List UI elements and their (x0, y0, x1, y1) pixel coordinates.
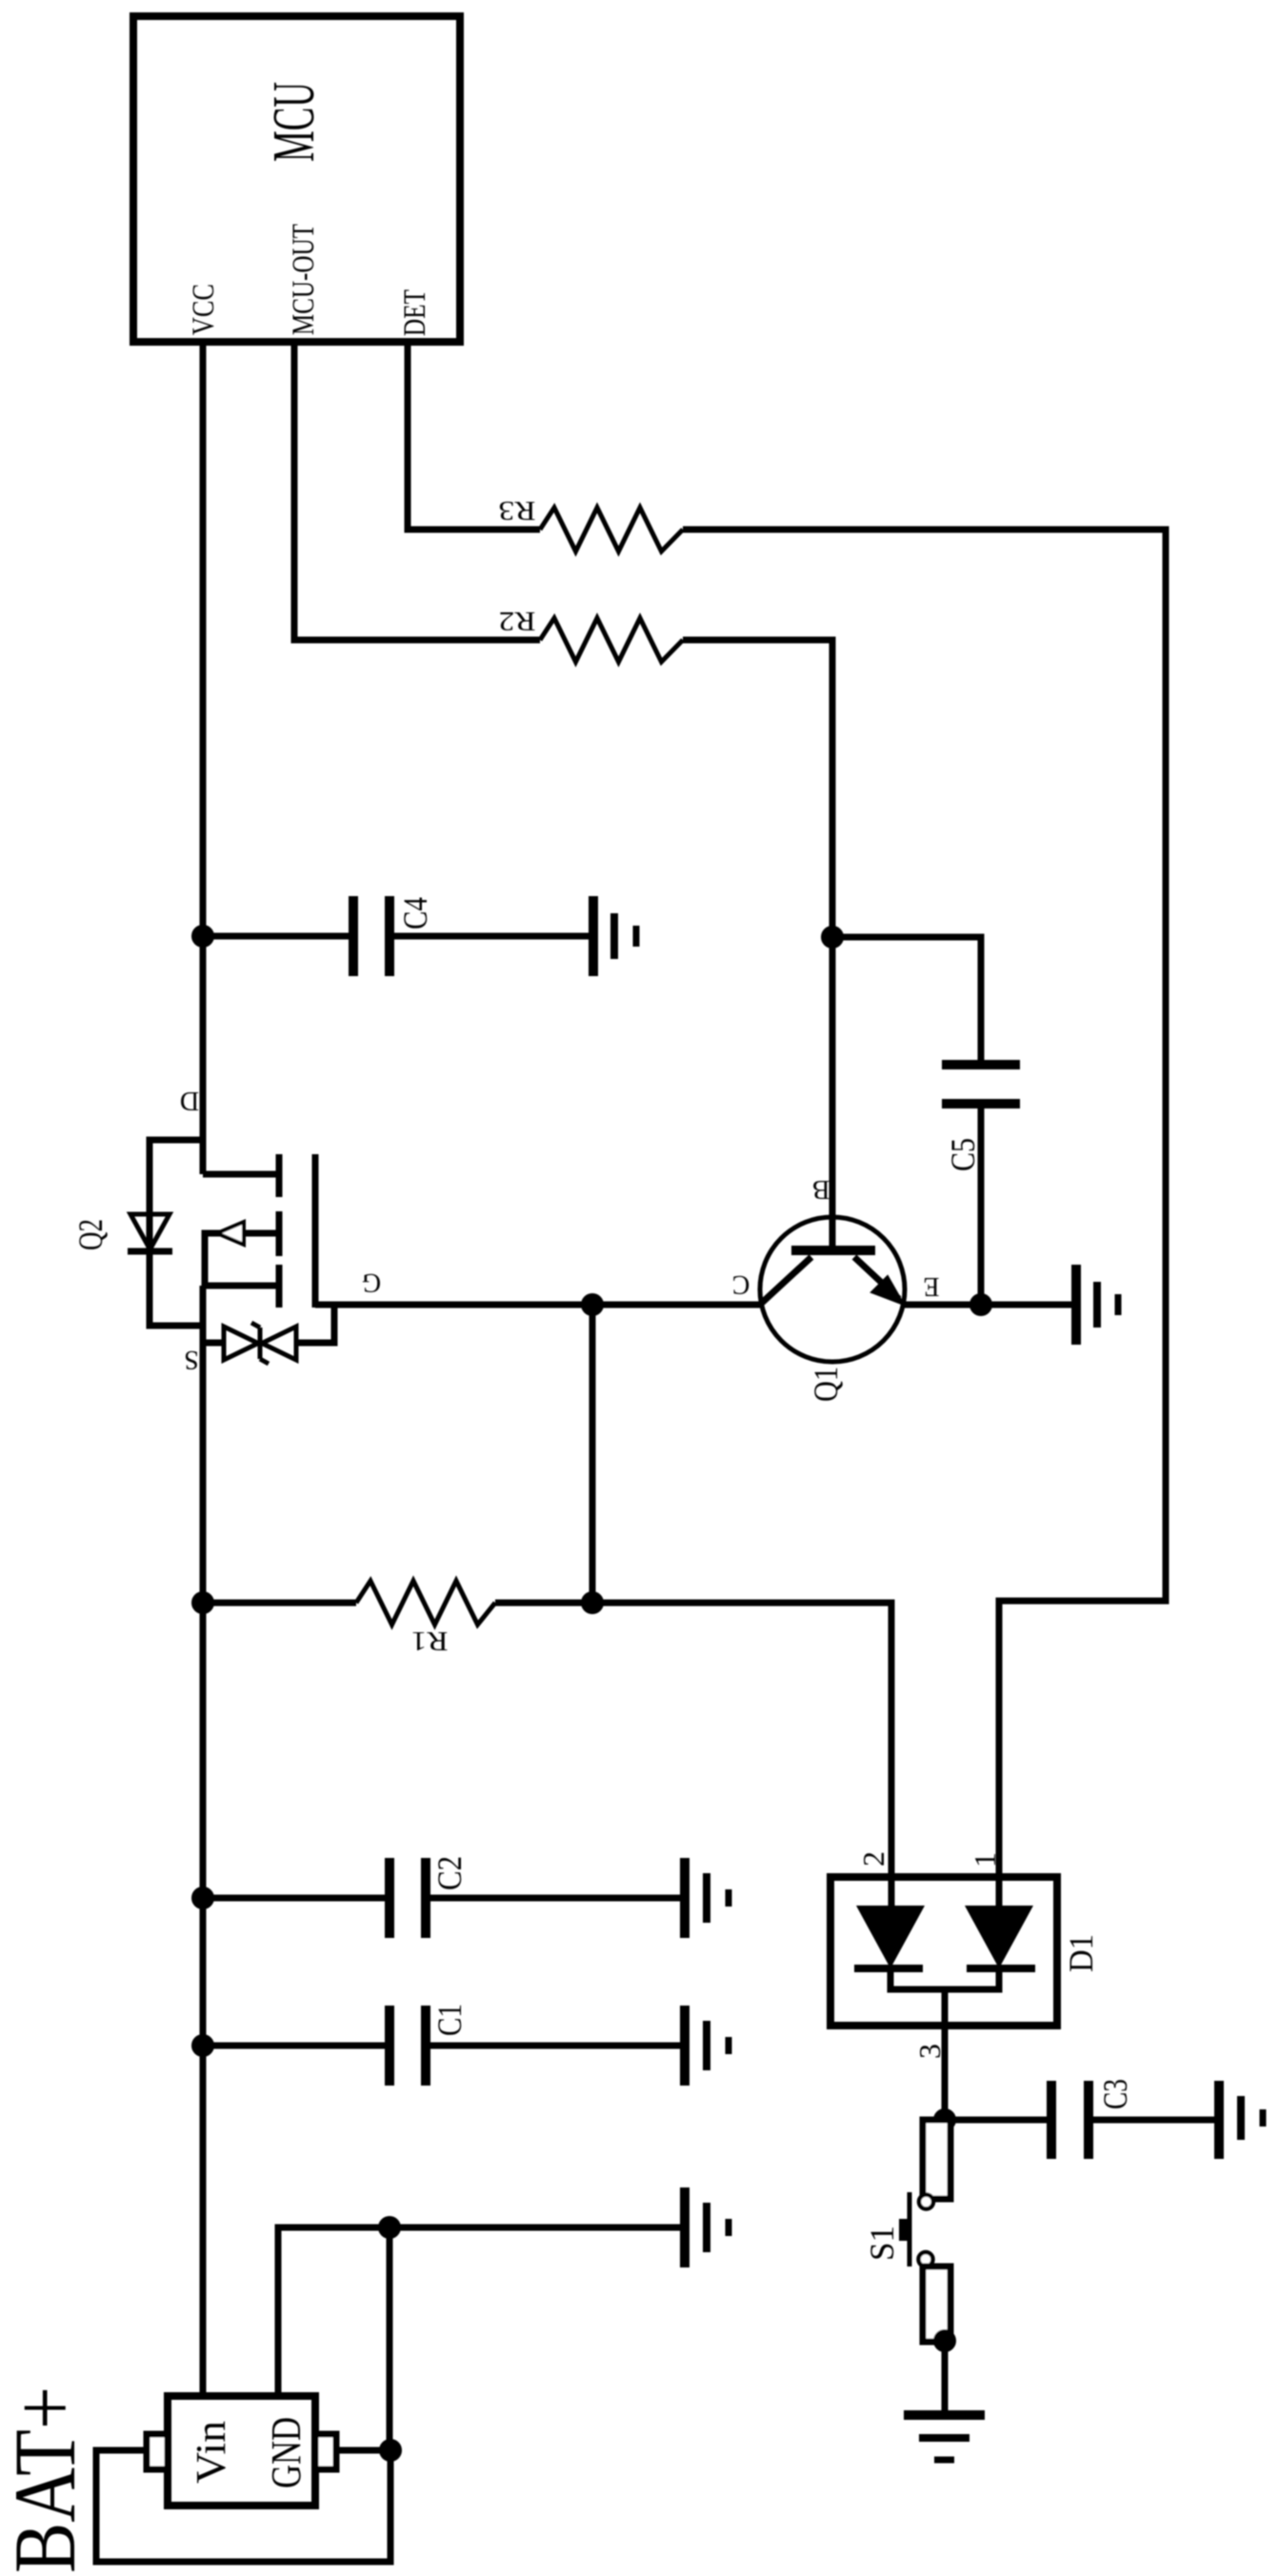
wire G net horizontal (315, 1302, 760, 1308)
node junction battery/GND (379, 2439, 402, 2462)
wire D1 cathodes join (890, 1968, 999, 1989)
wire right tab to node (336, 2447, 390, 2454)
svg-text:Q1: Q1 (807, 1367, 845, 1402)
svg-text:C5: C5 (944, 1138, 982, 1171)
wire R1 to D1 pin2 (495, 1603, 891, 1906)
ground (C2, sideways) (685, 1858, 729, 1938)
svg-text:B: B (812, 1174, 830, 1204)
wire C4 to ground (390, 933, 593, 940)
resistor R3 (540, 508, 683, 551)
svg-text:G: G (362, 1268, 381, 1297)
svg-text:C2: C2 (430, 1856, 469, 1890)
svg-text:GND: GND (263, 2417, 310, 2488)
ground (S1, upright) (904, 2415, 985, 2460)
diode D1 right element (965, 1906, 1035, 1968)
resistor R1 (356, 1581, 495, 1625)
wire Q1 emitter to ground (905, 1302, 1072, 1308)
wire R2 to node B (683, 640, 832, 937)
node junction VCC/R1 (191, 1591, 214, 1614)
wire VCC to C1 (203, 2043, 390, 2049)
svg-text:S: S (184, 1345, 199, 1374)
capacitor C4 (353, 896, 390, 976)
wire node to C5 (832, 937, 981, 1065)
svg-text:Vin: Vin (188, 2421, 234, 2484)
node junction VCC/C1 (191, 2034, 214, 2057)
capacitor C2 (390, 1858, 426, 1938)
wire C5 to node E (978, 1104, 985, 1305)
wire battery loop (96, 2450, 390, 2562)
wire GND net (278, 2227, 685, 2396)
wire DET to R3 (408, 345, 540, 529)
wire GND node down (387, 2227, 393, 2450)
wire D1 pin3 (942, 1989, 949, 2120)
wire C2 to ground (426, 1895, 685, 1902)
capacitor C5 (942, 1065, 1020, 1104)
wire VCC to C4 (203, 933, 353, 940)
wire Q2 body branch (150, 1140, 203, 1326)
ground (C4, sideways) (593, 896, 636, 976)
svg-text:Q2: Q2 (71, 1219, 110, 1250)
ground (C1, sideways) (685, 2006, 729, 2086)
svg-text:DET: DET (398, 290, 432, 336)
wire VCC to R1 (203, 1600, 356, 1607)
diode zener S-G (203, 1305, 334, 1364)
wire C1 to ground (426, 2043, 685, 2049)
svg-text:C: C (732, 1269, 750, 1299)
svg-text:C1: C1 (430, 2004, 469, 2036)
node junction R1/G (581, 1591, 604, 1614)
wire node to Q1 base (829, 937, 836, 1246)
capacitor C3 (1051, 2081, 1089, 2159)
ground (C3, sideways) (1219, 2081, 1263, 2159)
svg-text:2: 2 (856, 1851, 890, 1867)
diode Q2 body diode (128, 1214, 172, 1251)
node junction GND net (378, 2216, 401, 2239)
node junction R2/C5/B (821, 926, 844, 949)
wire VCC net vertical (200, 345, 207, 1174)
transistor Q2 (MOSFET) (203, 1154, 315, 1308)
wire G net to R1 node (590, 1305, 596, 1603)
MCU U1 block (133, 16, 460, 342)
pin tab left (147, 2434, 168, 2469)
svg-text:3: 3 (912, 2044, 947, 2059)
wire R3 to right side (683, 529, 1166, 1906)
svg-text:E: E (923, 1271, 939, 1301)
svg-text:MCU-OUT: MCU-OUT (287, 224, 321, 335)
diode D1 left element (854, 1906, 925, 1968)
svg-text:MCU: MCU (262, 82, 327, 162)
svg-text:BAT+: BAT+ (0, 2386, 93, 2573)
ground (Q1 emitter, sideways) (1076, 1265, 1118, 1345)
svg-text:1: 1 (968, 1852, 1002, 1867)
svg-text:R3: R3 (499, 495, 536, 525)
svg-text:S1: S1 (863, 2226, 901, 2261)
node junction VCC/C4 (191, 925, 214, 948)
pin tab right (315, 2434, 336, 2469)
svg-text:VCC: VCC (187, 284, 221, 335)
svg-text:C4: C4 (396, 897, 434, 929)
ground (GND net, sideways) (685, 2187, 729, 2267)
wire node to C3 (945, 2117, 1051, 2124)
wire MCU-OUT to R2 (294, 345, 540, 640)
node junction pin3/C3/S1 (933, 2108, 956, 2131)
wire C3 to ground (1089, 2117, 1219, 2124)
node junction E/C5 (969, 1293, 992, 1316)
wire VCC to C2 (203, 1895, 390, 1902)
node junction S1 bottom (933, 2329, 956, 2352)
wire VCC net lower vertical (200, 1286, 207, 2396)
resistor R2 (540, 618, 683, 662)
node junction VCC/C2 (191, 1887, 214, 1909)
node junction G net (581, 1293, 604, 1316)
capacitor C1 (390, 2006, 426, 2086)
svg-text:D1: D1 (1062, 1934, 1100, 1972)
diode D1 dual block (830, 1877, 1057, 2026)
svg-text:R1: R1 (411, 1626, 449, 1655)
switch S1 (899, 2120, 950, 2342)
wire S1 to ground (942, 2341, 949, 2415)
transistor Q1 (BJT) (760, 1217, 905, 1362)
svg-text:C3: C3 (1096, 2079, 1134, 2109)
svg-text:D: D (180, 1086, 199, 1115)
svg-text:R2: R2 (499, 606, 536, 635)
regulator block Vin/GND (168, 2396, 315, 2506)
